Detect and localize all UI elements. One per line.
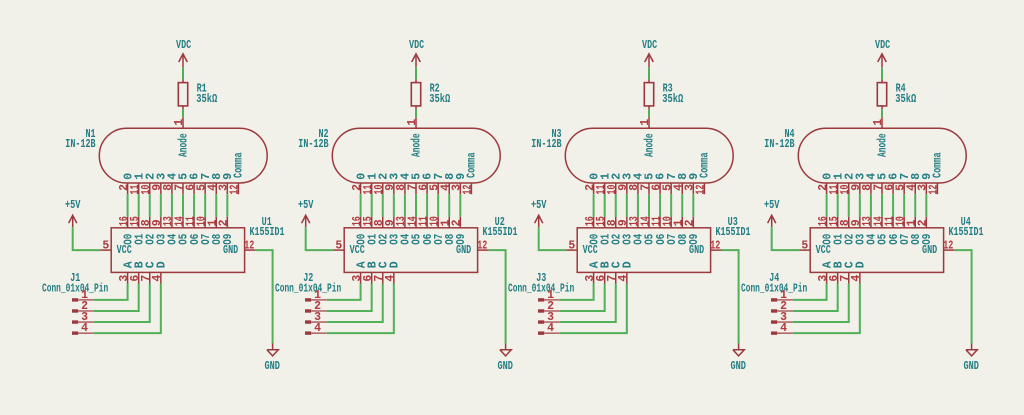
U3 output pin names O0-O9 (588, 234, 701, 245)
svg-text:IN-12B: IN-12B (531, 138, 561, 151)
svg-text:VDC: VDC (875, 39, 890, 52)
svg-text:VDC: VDC (409, 39, 424, 52)
svg-text:D: D (622, 261, 635, 268)
J4 pin 4 (771, 322, 793, 335)
U4 top pins with numbers (817, 216, 930, 228)
wire J3 pin 4 to U3 input D (560, 284, 627, 334)
svg-text:12: 12 (695, 184, 708, 194)
J2 pin 1 (305, 289, 327, 302)
wire J4 pin 3 to U4 input C (793, 284, 849, 323)
N3 pin 1 (anode pin) (648, 117, 650, 128)
svg-text:+5V: +5V (298, 199, 314, 212)
wires N1 digits to U1 outputs (128, 194, 228, 217)
wire +5V to U4 VCC (772, 227, 799, 250)
U1 output pin names O0-O9 (122, 234, 235, 245)
U1 pin 5 VCC (100, 249, 111, 251)
svg-text:12: 12 (244, 239, 254, 252)
resistor R3 35k (644, 79, 683, 109)
connector J2 Conn_01x04_Pin (275, 272, 341, 335)
wire R1 to N1 pin 1 (182, 109, 184, 117)
svg-text:1: 1 (639, 119, 652, 126)
ground symbol GND (block 1) (264, 344, 280, 374)
power symbol +5V (block 3) (531, 199, 547, 227)
U2 pin 12 GND (478, 249, 489, 251)
N2 pin 1 (anode pin) (415, 117, 417, 128)
J3 pin 3 (538, 311, 560, 324)
driver IC U4 K155ID1 (799, 216, 983, 284)
svg-text:Conn_01x04_Pin: Conn_01x04_Pin (741, 283, 807, 296)
wire J3 pin 1 to U3 input A (560, 284, 594, 300)
svg-text:1: 1 (872, 119, 885, 126)
ground symbol GND (block 3) (730, 344, 746, 374)
wires N4 digits to U4 outputs (827, 194, 927, 217)
N2 body (332, 128, 500, 183)
U1 body (111, 228, 244, 273)
power symbol VDC (block 4) (875, 39, 890, 67)
svg-text:4: 4 (151, 275, 164, 282)
N3 comma pin 12 (unconnected) (703, 183, 705, 194)
nixie tube N4 IN-12B (764, 117, 966, 194)
svg-text:VDC: VDC (176, 39, 191, 52)
wires N3 digits to U3 outputs (594, 194, 694, 217)
N4 bottom pins with numbers (817, 183, 941, 195)
svg-text:12: 12 (943, 239, 953, 252)
U4 body (810, 228, 943, 273)
svg-text:12: 12 (229, 184, 242, 194)
svg-text:2: 2 (917, 219, 930, 226)
U1 pin 12 GND (245, 249, 256, 251)
U3 input pin names A B C D (588, 261, 634, 268)
svg-text:35kΩ: 35kΩ (895, 93, 916, 106)
svg-text:K155ID1: K155ID1 (483, 226, 518, 239)
svg-text:12: 12 (477, 239, 487, 252)
wire J4 pin 1 to U4 input A (793, 284, 827, 300)
U2 top pins with numbers (351, 216, 464, 228)
U4 bottom pins with numbers (817, 272, 863, 283)
U4 pin 12 GND (944, 249, 955, 251)
svg-text:+5V: +5V (764, 199, 780, 212)
svg-text:Anode: Anode (178, 133, 191, 157)
J1 pin 4 (72, 322, 94, 335)
wire J3 pin 3 to U3 input C (560, 284, 616, 323)
N3 digit pin names 0-9 (588, 173, 701, 180)
wire VDC to R2 (415, 67, 417, 79)
svg-text:9: 9 (222, 173, 235, 180)
svg-text:4: 4 (384, 275, 397, 282)
U2 pin 5 VCC (333, 249, 344, 251)
svg-text:GND: GND (264, 360, 280, 373)
N2 bottom pins with numbers (351, 183, 475, 195)
svg-text:VDC: VDC (642, 39, 657, 52)
nixie tube N2 IN-12B (298, 117, 500, 194)
svg-text:12: 12 (928, 184, 941, 194)
svg-text:9: 9 (921, 173, 934, 180)
wire J2 pin 1 to U2 input A (327, 284, 361, 300)
J4 pin 3 (771, 311, 793, 324)
connector J4 Conn_01x04_Pin (741, 272, 807, 335)
J2 pin 2 (305, 300, 327, 313)
N1 digit pin names 0-9 (122, 173, 235, 180)
svg-text:D: D (389, 261, 402, 268)
svg-text:4: 4 (547, 322, 554, 335)
svg-text:1: 1 (173, 119, 186, 126)
svg-text:4: 4 (850, 275, 863, 282)
wire VDC to R3 (648, 67, 650, 79)
resistor R1 35k (178, 79, 217, 109)
svg-text:35kΩ: 35kΩ (196, 93, 217, 106)
svg-text:IN-12B: IN-12B (65, 138, 95, 151)
nixie tube N3 IN-12B (531, 117, 733, 194)
wire U4 GND to ground (955, 250, 972, 343)
N3 body (565, 128, 733, 183)
driver IC U2 K155ID1 (333, 216, 517, 284)
J4 pin 2 (771, 300, 793, 313)
wire +5V to U3 VCC (539, 227, 566, 250)
connector J3 Conn_01x04_Pin (508, 272, 574, 335)
N2 comma pin 12 (unconnected) (470, 183, 472, 194)
svg-text:VCC: VCC (350, 244, 365, 257)
U2 output pin names O0-O9 (355, 234, 468, 245)
svg-text:K155ID1: K155ID1 (949, 226, 984, 239)
svg-text:35kΩ: 35kΩ (429, 93, 450, 106)
N2 digit pin names 0-9 (355, 173, 468, 180)
svg-text:5: 5 (102, 239, 109, 252)
resistor R2 35k (411, 79, 450, 109)
wire J1 pin 4 to U1 input D (94, 284, 161, 334)
power symbol +5V (block 2) (298, 199, 314, 227)
power symbol VDC (block 2) (409, 39, 424, 67)
svg-text:12: 12 (710, 239, 720, 252)
driver IC U1 K155ID1 (100, 216, 284, 284)
driver IC U3 K155ID1 (566, 216, 750, 284)
U2 bottom pins with numbers (351, 272, 397, 283)
wire R3 to N3 pin 1 (648, 109, 650, 117)
svg-text:IN-12B: IN-12B (298, 138, 328, 151)
N1 pin 1 (anode pin) (182, 117, 184, 128)
power symbol VDC (block 1) (176, 39, 191, 67)
N4 pin 1 (anode pin) (881, 117, 883, 128)
svg-text:4: 4 (81, 322, 88, 335)
resistor R4 35k (877, 79, 916, 109)
J3 pin 4 (538, 322, 560, 335)
J3 pin 1 (538, 289, 560, 302)
svg-text:GND: GND (497, 360, 513, 373)
U1 top pins with numbers (118, 216, 231, 228)
wire VDC to R4 (881, 67, 883, 79)
wire J2 pin 2 to U2 input B (327, 284, 372, 311)
N3 bottom pins with numbers (584, 183, 708, 195)
power symbol VDC (block 3) (642, 39, 657, 67)
wire J4 pin 4 to U4 input D (793, 284, 860, 334)
J1 pin 2 (72, 300, 94, 313)
wire J2 pin 3 to U2 input C (327, 284, 383, 323)
wire J2 pin 4 to U2 input D (327, 284, 394, 334)
wire R4 to N4 pin 1 (881, 109, 883, 117)
connector J1 Conn_01x04_Pin (42, 272, 108, 335)
svg-text:2: 2 (684, 219, 697, 226)
svg-text:D: D (156, 261, 169, 268)
U3 bottom pins with numbers (584, 272, 630, 283)
wire J1 pin 3 to U1 input C (94, 284, 150, 323)
svg-text:GND: GND (730, 360, 746, 373)
svg-text:GND: GND (456, 244, 471, 257)
wire +5V to U2 VCC (306, 227, 333, 250)
power symbol +5V (block 1) (65, 199, 81, 227)
ground symbol GND (block 4) (963, 344, 979, 374)
N4 digit pin names 0-9 (821, 173, 934, 180)
U1 bottom pins with numbers (118, 272, 164, 283)
N1 comma pin 12 (unconnected) (237, 183, 239, 194)
wire R2 to N2 pin 1 (415, 109, 417, 117)
svg-text:1: 1 (406, 119, 419, 126)
U4 input pin names A B C D (821, 261, 867, 268)
svg-text:2: 2 (218, 219, 231, 226)
svg-text:Conn_01x04_Pin: Conn_01x04_Pin (508, 283, 574, 296)
svg-text:GND: GND (223, 244, 238, 257)
J3 pin 2 (538, 300, 560, 313)
svg-text:GND: GND (922, 244, 937, 257)
wire U2 GND to ground (489, 250, 506, 343)
svg-text:VCC: VCC (583, 244, 598, 257)
svg-text:VCC: VCC (816, 244, 831, 257)
U4 pin 5 VCC (799, 249, 810, 251)
svg-text:IN-12B: IN-12B (764, 138, 794, 151)
svg-text:+5V: +5V (65, 199, 81, 212)
svg-text:5: 5 (335, 239, 342, 252)
wire J1 pin 1 to U1 input A (94, 284, 128, 300)
svg-text:4: 4 (314, 322, 321, 335)
U2 body (344, 228, 477, 273)
svg-text:VCC: VCC (117, 244, 132, 257)
svg-text:2: 2 (451, 219, 464, 226)
svg-text:Conn_01x04_Pin: Conn_01x04_Pin (42, 283, 108, 296)
svg-text:5: 5 (801, 239, 808, 252)
svg-text:GND: GND (963, 360, 979, 373)
U3 body (577, 228, 710, 273)
svg-text:Anode: Anode (644, 133, 657, 157)
U3 top pins with numbers (584, 216, 697, 228)
svg-text:4: 4 (617, 275, 630, 282)
J2 pin 4 (305, 322, 327, 335)
svg-text:+5V: +5V (531, 199, 547, 212)
svg-text:12: 12 (462, 184, 475, 194)
svg-text:35kΩ: 35kΩ (662, 93, 683, 106)
svg-text:Anode: Anode (877, 133, 890, 157)
J4 pin 1 (771, 289, 793, 302)
power symbol +5V (block 4) (764, 199, 780, 227)
J1 pin 1 (72, 289, 94, 302)
U2 input pin names A B C D (355, 261, 401, 268)
svg-text:4: 4 (780, 322, 787, 335)
svg-text:Anode: Anode (411, 133, 424, 157)
svg-text:Conn_01x04_Pin: Conn_01x04_Pin (275, 283, 341, 296)
nixie tube N1 IN-12B (65, 117, 267, 194)
svg-text:D: D (855, 261, 868, 268)
wire J4 pin 2 to U4 input B (793, 284, 838, 311)
svg-text:9: 9 (455, 173, 468, 180)
N1 body (99, 128, 267, 183)
U3 pin 5 VCC (566, 249, 577, 251)
ground symbol GND (block 2) (497, 344, 513, 374)
svg-text:GND: GND (689, 244, 704, 257)
svg-text:5: 5 (568, 239, 575, 252)
wire U1 GND to ground (256, 250, 273, 343)
U4 output pin names O0-O9 (821, 234, 934, 245)
N4 comma pin 12 (unconnected) (936, 183, 938, 194)
wire VDC to R1 (182, 67, 184, 79)
N4 body (798, 128, 966, 183)
U1 input pin names A B C D (122, 261, 168, 268)
wire J1 pin 2 to U1 input B (94, 284, 139, 311)
svg-text:K155ID1: K155ID1 (250, 226, 285, 239)
svg-text:9: 9 (688, 173, 701, 180)
wire U3 GND to ground (722, 250, 739, 343)
wire J3 pin 2 to U3 input B (560, 284, 605, 311)
J1 pin 3 (72, 311, 94, 324)
U3 pin 12 GND (711, 249, 722, 251)
svg-text:K155ID1: K155ID1 (716, 226, 751, 239)
N1 bottom pins with numbers (118, 183, 242, 195)
wire +5V to U1 VCC (73, 227, 100, 250)
wires N2 digits to U2 outputs (361, 194, 461, 217)
J2 pin 3 (305, 311, 327, 324)
